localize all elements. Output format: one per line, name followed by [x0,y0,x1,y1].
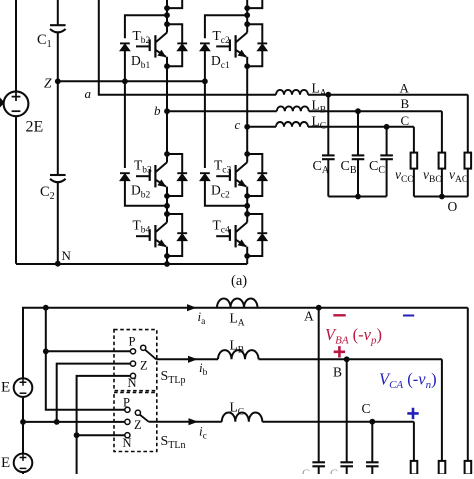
node phase b output [164,108,170,114]
wire clamp Db1 top link [125,15,167,38]
switch box STLp (dashed) [114,330,157,391]
node phase c output [244,124,250,130]
node Z bus / clamp c junction [202,78,208,84]
svg-text:P: P [129,335,136,349]
node source midpoint [20,419,26,425]
wire O rail [414,196,468,198]
E1 minus sign [20,392,27,394]
red plus sign (VBA) [334,346,345,357]
transistor Tb4 (IGBT) [136,222,167,256]
wire line B [309,110,442,112]
wire vAO drop [467,95,469,153]
svg-text:O: O [448,199,458,214]
wire Tb4 antiparallel-diode branch [167,214,182,256]
wire DC source bottom lead [15,116,17,264]
stray mark at left edge [0,98,5,108]
node line A / CA junction [325,92,331,98]
wire C2 bottom lead [57,181,59,263]
wire line C [308,126,414,128]
terminal P2 [125,407,130,412]
diode antiparallel with Tb2 [177,42,187,44]
wire A capacitor column [318,308,320,463]
wire N rail [16,263,247,265]
switch STLp blade [145,350,156,360]
wire CB column [357,111,359,155]
inductor LC (section b) [222,413,262,422]
voltage source E1 [14,378,33,397]
current arrow ib [188,356,198,363]
wire DC source top lead [15,0,17,92]
resistor vBO [439,153,446,169]
wire clamp column b lower [124,81,126,168]
E2 plus sign [20,454,27,461]
node Z [55,78,61,84]
node B (section b) [344,356,350,362]
switch STLn pole [135,410,140,415]
wire Z feeder [57,364,133,422]
node leg b top junction [164,5,170,11]
wire leg b bottom segment [166,256,168,264]
wire node Z to C2 [57,81,59,175]
capacitor on C (cut) [366,461,379,463]
wire clamp Dc2 bottom link [205,181,247,206]
resistor vCO [411,153,418,169]
node Tc4 emitter junction [244,253,250,259]
node clamp Dc2 return junction [244,203,250,209]
capacitor CC [380,154,393,156]
node A (section b) [316,305,322,311]
wire E column top [23,308,468,379]
node leg b / N rail junction [164,261,170,267]
node clamp Dc1 junction [244,12,250,18]
node Tb4 collector junction [164,211,170,217]
inductor LA [276,90,308,95]
node line B / CB junction [355,108,361,114]
wire midpoint bus [23,421,125,423]
wire STLp output [156,358,218,360]
node line C / CC junction [384,124,390,130]
svg-text:N: N [123,436,132,450]
inductor LA (section b) [217,299,258,308]
wire leg b upper segment [166,0,168,24]
wire B drop to vBO [441,359,443,461]
svg-text:C: C [302,466,310,474]
2E plus sign [12,92,21,101]
svg-text:C: C [362,401,371,416]
svg-text:c: c [235,117,241,132]
resistor vAO [465,153,472,169]
diode Db2 (clamp) [120,172,130,174]
blue minus sign (VCA) [403,315,414,317]
node Tc3 emitter junction [244,193,250,199]
2E minus sign [12,110,21,112]
node cap star point [355,194,361,200]
resistor vAO (section b) [465,461,472,475]
wire leg c upper segment [246,0,248,24]
E1 plus sign [20,379,27,386]
diode Db1 (clamp) [120,42,130,44]
node Tb3 emitter junction [164,193,170,199]
terminal N2 [125,433,130,438]
node Tb2 collector junction [164,21,170,27]
diode Dc1 (clamp) [200,42,210,44]
svg-text:A: A [304,309,314,324]
transistor Tc2 (IGBT) [216,33,247,67]
wire Tb2 collector lead [166,24,168,32]
diode antiparallel with Tb3 [177,172,187,174]
svg-text:N: N [128,376,137,390]
wire vCO drop [413,127,415,153]
node Tb2 emitter junction [164,63,170,69]
node P1 tap [43,348,49,354]
wire CB bottom [357,159,359,196]
resistor vBO (section b) [439,461,446,475]
diode Dc2 (clamp) [200,172,210,174]
current arrow ic [189,418,199,425]
svg-text:B: B [333,365,342,380]
capacitor C1 [50,24,66,26]
svg-text:a: a [85,86,92,101]
wire line A (section b) right segment drawn with top rail [0,0,1,1]
wire leg c bottom segment [246,256,248,264]
node clamp Db1 junction [164,12,170,18]
diode antiparallel with Tc3 [257,172,267,174]
wire clamp column c mid [204,51,206,81]
switch STLn blade [140,415,149,422]
resistor vCO (section b) [411,461,418,475]
wire Tc4 antiparallel-diode branch [247,214,262,256]
wire C cap stub [371,466,373,474]
voltage source E2 [14,454,33,473]
inductor LC [276,122,308,127]
wire leg c mid segment [246,66,248,154]
svg-text:Z: Z [44,76,52,91]
wire vBO bottom [441,169,443,197]
wire clamp column c lower [204,81,206,168]
capacitor on B (cut) [340,461,353,463]
transistor Tb3 (IGBT) [136,162,167,196]
transistor Tc3 (IGBT) [216,162,247,196]
switch box STLn (dashed) [114,393,157,452]
wire C capacitor column [371,422,373,463]
terminal N1 [130,373,135,378]
diode antiparallel with Tc4 [257,232,267,234]
voltage source 2E [4,91,29,116]
svg-text:B: B [401,96,410,111]
wire phase-c line [247,126,276,128]
svg-text:N: N [62,248,72,263]
terminal Z2 [125,419,130,424]
svg-text:Z: Z [140,359,148,373]
node C (section b) [369,419,375,425]
wire CC bottom [386,159,388,196]
wire vCO bottom [413,169,415,197]
wire B cap stub [346,466,348,474]
node Z midpoint bus junction [54,419,60,425]
svg-text:C: C [330,466,338,474]
wire E1 to midpoint [22,397,24,454]
wire cap star rail [328,196,386,198]
svg-text:Z: Z [134,418,142,432]
svg-text:C: C [401,113,410,128]
wire line A [308,94,468,96]
wire C1 to node Z [57,32,59,82]
wire clamp Dc1 top link [205,15,247,38]
node clamp Db2 return junction [164,203,170,209]
node Tc4 collector junction [244,211,250,217]
wire Tb4 collector lead [166,214,168,222]
wire vAO bottom [467,169,469,197]
terminal Z1 [130,361,135,366]
wire C1 top lead [57,0,59,25]
wire clamp column b mid [124,51,126,81]
wire A cap stub [318,466,320,474]
capacitor on A (cut) [312,461,325,463]
wire leg c top stub [247,0,262,8]
node Tc4 collector junction [244,211,250,217]
wire P feeder column [46,308,125,410]
svg-text:E: E [1,455,10,471]
wire Tc3 collector lead [246,154,248,162]
wire Tc2 collector lead [246,24,248,32]
capacitor CB [352,154,365,156]
node O [439,194,445,200]
svg-text:P: P [123,396,130,410]
wire vBO drop [441,111,443,152]
node leg c top junction [244,5,250,11]
wire C drop to vCO [413,422,415,461]
transistor Tc4 (IGBT) [216,222,247,256]
wire P1 link [46,350,130,352]
svg-text:A: A [400,81,410,96]
wire CA bottom [327,159,329,196]
node Tc2 emitter junction [244,63,250,69]
wire leg c segment Tc3-Tc4 [246,196,248,214]
node Tc2 collector junction [244,21,250,27]
svg-text:(a): (a) [231,273,247,289]
wire leg b mid segment [166,66,168,154]
wire N feeder [77,376,131,474]
wire line B (section b) [259,358,442,360]
wire Tb3 collector lead [166,154,168,162]
wire N2 link [77,434,125,436]
wire Tc2 antiparallel-diode branch [247,24,262,66]
wire line C (section b) [262,421,414,423]
diode antiparallel with Tc2 [257,42,267,44]
capacitor CA [322,154,335,156]
current arrow ia [187,304,197,311]
blue plus sign (VCA) [407,408,418,419]
wire A drop to vAO [467,308,469,461]
svg-text:b: b [154,103,161,118]
node Tb3 collector junction [164,151,170,157]
diode antiparallel with Tb4 [177,232,187,234]
node C2-N rail junction [55,261,61,267]
svg-text:E: E [1,380,10,396]
node P feeder junction [43,305,49,311]
switch STLp pole [141,345,146,350]
svg-text:2E: 2E [26,119,44,136]
inductor LB [277,106,309,111]
wire Tc4 collector lead [246,214,248,222]
wire clamp Db2 bottom link [125,181,167,206]
terminal P1 [130,349,135,354]
wire Tc3 antiparallel-diode branch [247,154,262,196]
node Tb4 emitter junction [164,253,170,259]
wire leg b top stub [167,0,182,8]
wire Tb3 antiparallel-diode branch [167,154,182,196]
node Tc3 collector junction [244,151,250,157]
wire phase-a column [99,0,276,95]
wire Tb2 antiparallel-diode branch [167,24,182,66]
E2 minus sign [20,467,27,469]
wire phase-b line [167,110,277,112]
node N2 tap [74,432,80,438]
wire leg b segment Tb3-Tb4 [166,196,168,214]
wire B capacitor column [346,359,348,462]
wire STLn output [149,421,222,423]
inductor LB (section b) [218,350,259,359]
wire CA column [327,95,329,156]
node Tb4 collector junction [164,211,170,217]
transistor Tb2 (IGBT) [136,33,167,67]
red minus sign (VBA) [333,314,345,316]
node Z bus / clamp b junction [122,78,128,84]
wire Z bus [58,80,205,82]
capacitor C2 [50,174,66,176]
wire CC column [386,127,388,156]
wire E2 bottom lead [22,472,24,474]
